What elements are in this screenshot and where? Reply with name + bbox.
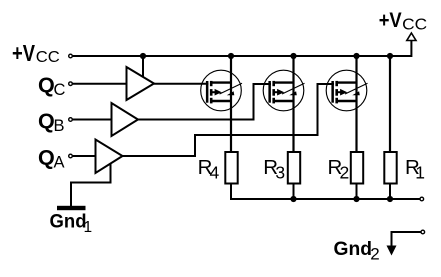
svg-text:B: B <box>54 117 65 135</box>
terminal QA <box>69 154 73 158</box>
buffer U2 (QB) <box>112 103 139 136</box>
power arrow +VCC top right <box>407 33 416 41</box>
junction dot rail-M2 <box>290 53 296 59</box>
wire buffer1 power <box>142 56 144 79</box>
resistor R1 <box>384 152 396 184</box>
junction dot rail-M1 <box>228 53 234 59</box>
svg-text:2: 2 <box>370 245 379 264</box>
transistor M1 <box>201 70 242 111</box>
wire R1 bottom stub <box>389 184 391 200</box>
resistor R3 <box>288 152 300 184</box>
wire QC buffer output to M1 gate <box>154 83 209 85</box>
resistor R4 <box>225 152 237 184</box>
junction dot rail-R1 bottom <box>387 196 393 202</box>
svg-text:Q: Q <box>38 146 55 170</box>
svg-text:Gnd: Gnd <box>50 212 87 233</box>
wire buffer3 ground lead <box>71 164 111 207</box>
terminal Gnd2 <box>421 230 425 234</box>
label R2 <box>328 156 350 182</box>
label +VCC left <box>12 40 60 66</box>
label R4 <box>198 156 220 182</box>
junction dot rail-R2 bottom <box>353 196 359 202</box>
svg-text:Q: Q <box>38 73 55 97</box>
wire M3 drain column <box>355 56 357 151</box>
svg-text:3: 3 <box>275 162 285 182</box>
svg-text:Q: Q <box>38 109 55 133</box>
wire top VCC rail <box>73 41 412 57</box>
wire QA buffer output to M3 gate <box>123 84 335 156</box>
label QA <box>38 146 65 172</box>
buffer U1 (QC) <box>127 67 155 100</box>
svg-text:2: 2 <box>340 162 350 182</box>
terminal QC <box>69 82 73 86</box>
junction dot rail-R3 bottom <box>290 196 296 202</box>
wire QA input <box>73 155 96 157</box>
ground arrow Gnd2 <box>387 246 397 256</box>
terminal output bottom right <box>420 197 424 201</box>
wire M2 drain column <box>292 56 294 151</box>
junction dot rail-R1 <box>387 53 393 59</box>
transistor M2 <box>263 70 304 111</box>
ground bar Gnd1 <box>57 206 86 210</box>
label QB <box>38 109 65 135</box>
svg-text:C: C <box>54 81 66 99</box>
svg-text:Gnd: Gnd <box>334 239 373 260</box>
transistor M3 <box>326 70 367 111</box>
wire bottom rail <box>231 198 420 200</box>
label Gnd1 <box>50 212 93 236</box>
label R3 <box>263 156 285 182</box>
terminal +VCC left <box>69 54 73 58</box>
svg-text:+V: +V <box>379 8 403 32</box>
junction dot rail-buffer1 <box>140 53 146 59</box>
wire QB buffer output to M2 gate <box>138 84 271 120</box>
label +VCC top right <box>379 8 428 33</box>
junction dot rail-M3 <box>353 53 359 59</box>
wire QB input <box>73 119 112 121</box>
svg-text:A: A <box>54 154 65 172</box>
label R1 <box>405 156 425 182</box>
buffer U3 (QA) <box>96 140 123 174</box>
svg-text:4: 4 <box>210 162 220 182</box>
wire Gnd2 lead <box>392 232 421 246</box>
label QC <box>38 73 66 99</box>
wire R3 bottom stub <box>293 184 295 200</box>
wire R2 bottom stub <box>356 184 358 200</box>
wire R4 bottom stub <box>230 184 232 201</box>
svg-text:CC: CC <box>402 16 427 33</box>
wire QC input <box>73 83 127 85</box>
wire M1 drain column <box>230 56 232 151</box>
svg-text:CC: CC <box>36 49 60 66</box>
svg-text:+V: +V <box>12 40 36 66</box>
svg-text:1: 1 <box>415 162 425 182</box>
wire R1 column <box>389 56 391 151</box>
label Gnd2 <box>334 239 380 264</box>
resistor R2 <box>351 152 363 184</box>
terminal QB <box>69 118 73 122</box>
svg-text:1: 1 <box>84 219 93 236</box>
